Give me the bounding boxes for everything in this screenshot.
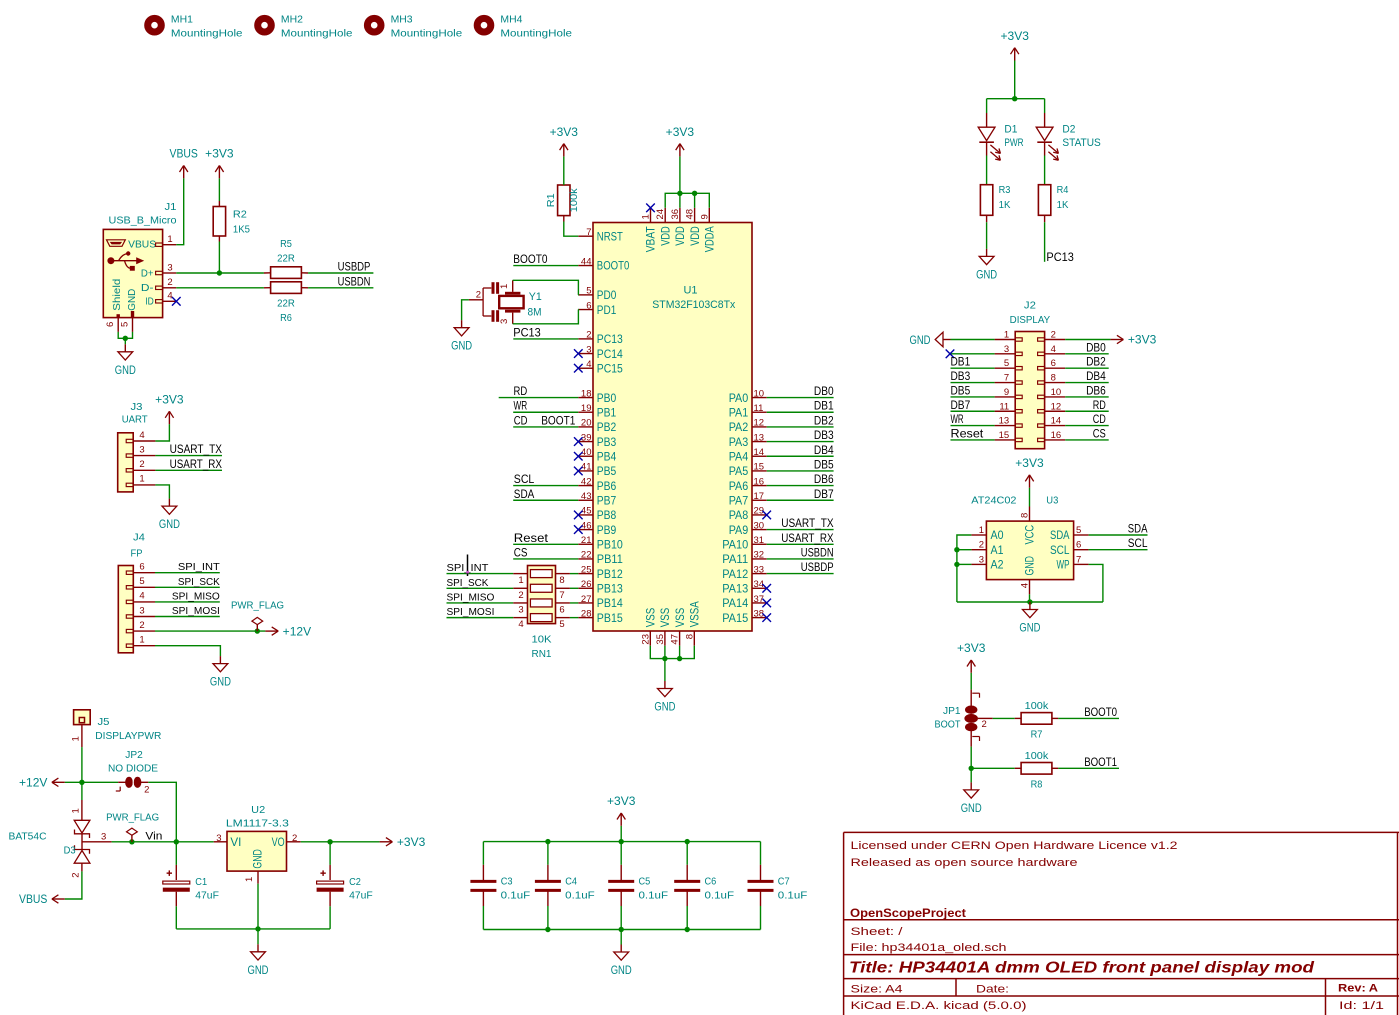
svg-text:SPI_MISO: SPI_MISO [172,590,220,602]
svg-text:3: 3 [979,554,984,565]
svg-text:PA13: PA13 [722,583,748,595]
wire [447,573,514,575]
junction [685,839,690,844]
svg-text:1: 1 [139,635,144,646]
svg-text:19: 19 [581,403,592,414]
svg-text:31: 31 [754,535,765,546]
wire [620,930,622,945]
ground [159,499,180,531]
svg-text:4: 4 [586,359,591,370]
wire [951,367,995,369]
wire [971,767,1015,769]
svg-text:PB2: PB2 [597,422,617,434]
svg-text:PB7: PB7 [597,495,617,507]
junction [545,927,550,932]
wire [951,339,995,341]
svg-text:Vin: Vin [145,830,162,842]
svg-text:12: 12 [1051,401,1062,412]
wire [993,717,1015,719]
wire [257,929,259,944]
junction [619,927,624,932]
ground [248,944,269,977]
wire [176,928,330,930]
mounting hole MH4 [477,15,572,40]
svg-text:VBUS: VBUS [128,239,156,251]
svg-text:DB0: DB0 [814,386,834,398]
svg-text:3: 3 [1004,344,1009,355]
wire [483,929,760,931]
svg-text:PB15: PB15 [597,613,623,625]
svg-text:R5: R5 [280,238,292,250]
wire [767,558,834,560]
svg-text:25: 25 [581,564,592,575]
svg-text:MH2: MH2 [281,15,303,26]
resistor R2 [213,207,250,237]
wire [118,332,132,338]
svg-text:+3V3: +3V3 [155,395,183,407]
power GND (left arrow) [910,332,951,347]
wire [308,272,373,274]
no-connect X [574,467,583,476]
svg-text:JP2: JP2 [125,749,143,761]
mounting hole MH3 [367,15,462,40]
no-connect X [574,511,583,520]
wire [513,338,578,340]
svg-text:4: 4 [139,591,144,602]
wire [1065,382,1109,384]
svg-text:VCC: VCC [1025,525,1037,545]
svg-text:Sheet: /: Sheet: / [851,926,904,938]
ground [976,249,997,282]
wire [1015,717,1021,719]
svg-text:GND: GND [451,341,472,353]
wire [513,426,578,428]
wire [951,439,995,441]
svg-text:PB5: PB5 [597,466,617,478]
junction [123,336,128,341]
svg-text:1: 1 [979,525,984,536]
wire [1065,353,1109,355]
wire [986,222,988,249]
ground [1019,602,1040,635]
wire [679,156,681,193]
wire [112,841,214,843]
svg-text:CD: CD [1093,414,1106,426]
svg-text:PWR_FLAG: PWR_FLAG [231,599,284,611]
svg-text:DB7: DB7 [814,489,834,501]
svg-text:DB2: DB2 [1086,357,1106,369]
svg-text:PC13: PC13 [1046,250,1074,264]
svg-text:27: 27 [581,594,592,605]
svg-text:U1: U1 [684,285,698,297]
svg-text:2: 2 [979,540,984,551]
wire [1065,410,1109,412]
svg-text:R3: R3 [999,184,1011,196]
no-connect X [762,511,771,520]
wire [155,485,169,499]
wire [760,865,762,882]
svg-text:CD: CD [514,413,528,427]
svg-text:1: 1 [167,234,172,245]
wire [513,280,579,295]
wire [767,543,834,545]
wire [155,646,220,656]
wire [1089,564,1103,602]
svg-text:STM32F103C8Tx: STM32F103C8Tx [652,299,735,311]
wire [570,602,578,604]
svg-text:PA6: PA6 [729,481,749,493]
power +3V3 [666,127,694,157]
svg-text:MountingHole: MountingHole [171,29,243,40]
wire [564,222,579,237]
wire [951,382,995,384]
wire [767,470,834,472]
svg-text:GND: GND [1019,623,1040,635]
power VBUS [170,149,199,179]
svg-text:100k: 100k [1025,700,1049,712]
svg-text:BOOT0: BOOT0 [513,252,547,266]
junction [1027,599,1032,604]
svg-text:2: 2 [139,459,144,470]
wire [155,586,220,588]
svg-text:R2: R2 [233,209,247,221]
junction [662,656,667,661]
svg-text:UART: UART [122,414,149,426]
svg-text:8: 8 [1020,513,1031,518]
svg-text:47: 47 [670,634,681,645]
svg-text:PB14: PB14 [597,598,624,610]
no-connect X [646,204,655,213]
svg-text:8M: 8M [528,307,542,319]
svg-text:47uF: 47uF [195,889,219,901]
wire [124,337,126,339]
svg-text:BOOT: BOOT [935,718,961,730]
wire [257,884,259,929]
svg-text:DB6: DB6 [814,474,834,486]
svg-text:6: 6 [1051,358,1056,369]
svg-text:WR: WR [951,414,964,426]
svg-text:10: 10 [1051,387,1062,398]
wire [447,602,514,604]
svg-text:USBDP: USBDP [801,562,834,574]
svg-text:PA0: PA0 [729,393,749,405]
wire [499,397,579,399]
svg-text:DB4: DB4 [1086,371,1106,383]
svg-text:32: 32 [754,550,765,561]
wire [176,272,264,274]
resistor R5 [271,238,302,278]
wire [951,396,995,398]
diode D3 BAT54C [9,800,112,878]
svg-text:+12V: +12V [283,626,312,638]
crystal Y1 8M [469,280,542,324]
power +12V [19,778,65,790]
svg-text:SPI_SCK: SPI_SCK [447,577,489,589]
svg-text:RN1: RN1 [532,648,552,660]
wire [124,338,126,344]
svg-text:DB5: DB5 [951,385,971,397]
svg-text:DISPLAYPWR: DISPLAYPWR [95,730,161,742]
svg-text:1: 1 [71,736,82,741]
svg-text:USBDP: USBDP [338,262,371,274]
wire [1058,767,1119,769]
svg-text:C2: C2 [349,876,361,888]
svg-text:SPI_INT: SPI_INT [178,561,221,573]
svg-text:PWR_FLAG: PWR_FLAG [106,811,159,823]
svg-text:7: 7 [586,227,591,238]
svg-text:18: 18 [581,388,592,399]
svg-text:FP: FP [131,548,143,560]
svg-text:3: 3 [586,344,591,355]
wire [1089,549,1148,551]
svg-text:2: 2 [71,872,82,877]
svg-text:PB8: PB8 [597,510,617,522]
wire [1065,396,1109,398]
svg-text:GND: GND [248,965,269,977]
svg-text:Id: 1/1: Id: 1/1 [1339,1000,1384,1012]
wire [563,216,565,222]
svg-text:PA4: PA4 [729,451,749,463]
capacitor C5 [608,875,668,901]
title block text [849,840,1384,1012]
svg-text:1: 1 [71,808,82,813]
wire [148,782,176,842]
svg-text:A2: A2 [991,560,1004,572]
svg-text:PB0: PB0 [597,393,617,405]
resistor R1 [545,185,580,216]
svg-text:2: 2 [586,330,591,341]
wire [447,617,514,619]
capacitor C3 [470,875,530,901]
wire [547,890,549,906]
no-connect X [574,437,583,446]
junction [255,628,260,633]
svg-text:DB7: DB7 [951,400,971,412]
svg-text:DB3: DB3 [814,430,834,442]
svg-text:USBDN: USBDN [338,276,371,288]
wire [482,865,484,882]
wire [620,906,622,930]
wire [679,193,681,208]
wire [570,587,578,589]
svg-text:0.1uF: 0.1uF [778,890,808,902]
svg-text:MH4: MH4 [500,15,522,26]
wire [155,601,220,603]
svg-text:Title: HP34401A dmm OLED front: Title: HP34401A dmm OLED front panel dis… [849,960,1315,977]
junction [129,839,134,844]
power VBUS [19,894,65,906]
no-connect X [762,599,771,608]
svg-text:WR: WR [514,399,528,413]
svg-text:30: 30 [754,520,765,531]
svg-text:42: 42 [581,476,592,487]
power +3V3 [1015,458,1043,488]
svg-text:PD0: PD0 [597,290,617,302]
svg-text:14: 14 [754,447,765,458]
svg-text:7: 7 [1004,373,1009,384]
svg-text:MH3: MH3 [391,15,413,26]
svg-text:PA10: PA10 [722,539,748,551]
svg-text:8: 8 [684,634,695,639]
svg-text:GND: GND [115,365,136,377]
svg-text:11: 11 [999,401,1009,412]
svg-text:28: 28 [581,608,592,619]
svg-text:D-: D- [141,282,154,294]
svg-text:VDD: VDD [660,226,672,246]
svg-text:C3: C3 [501,875,513,887]
wire [686,890,688,906]
svg-text:3: 3 [518,604,523,615]
svg-text:R6: R6 [280,312,292,324]
svg-text:U2: U2 [251,804,265,816]
svg-text:PC15: PC15 [597,363,623,375]
svg-text:PC13: PC13 [513,325,541,339]
svg-text:PC14: PC14 [597,349,624,361]
wire [679,646,681,659]
wire [264,272,271,274]
svg-text:PA7: PA7 [729,495,749,507]
wire [1044,156,1046,185]
wire [308,287,373,289]
wire [767,411,834,413]
svg-text:USART_RX: USART_RX [781,533,834,545]
svg-text:9: 9 [1004,387,1009,398]
wire [760,890,762,906]
power +3V3 [380,837,426,849]
wire [175,842,177,865]
svg-text:SDA: SDA [514,487,535,501]
svg-text:BOOT0: BOOT0 [597,261,630,273]
svg-text:21: 21 [581,535,592,546]
svg-text:USB_B_Micro: USB_B_Micro [109,214,177,226]
wire [767,529,834,531]
junction [217,270,222,275]
svg-text:12: 12 [754,418,765,429]
svg-text:1: 1 [1004,330,1009,341]
junction [954,562,959,567]
no-connect X [762,584,771,593]
wire [513,558,578,560]
wire [175,906,177,929]
svg-text:R4: R4 [1057,184,1069,196]
svg-text:1: 1 [244,877,255,882]
svg-text:2: 2 [144,785,149,796]
wire [482,890,484,906]
wire [686,906,688,930]
wire [329,906,331,929]
wire [1044,222,1046,262]
svg-text:1K: 1K [1057,199,1069,211]
wire [767,441,834,443]
svg-text:3: 3 [139,605,144,616]
wire [81,782,83,800]
wire [767,485,834,487]
svg-text:PA15: PA15 [722,613,748,625]
svg-text:PA1: PA1 [729,407,749,419]
svg-text:MountingHole: MountingHole [281,29,353,40]
svg-text:D+: D+ [141,267,154,279]
wire [218,242,220,274]
svg-text:PB1: PB1 [597,407,617,419]
wire [547,906,549,930]
svg-text:DISPLAY: DISPLAY [1010,314,1051,326]
svg-text:GND: GND [654,702,675,714]
junction [954,547,959,552]
svg-text:13: 13 [754,432,765,443]
wire [950,353,995,355]
wire [176,287,264,289]
no-connect X [946,350,955,359]
junction [327,839,332,844]
svg-text:5: 5 [119,322,130,327]
capacitor C1 [163,870,219,901]
svg-text:PA5: PA5 [729,466,749,478]
wire [175,865,177,880]
svg-text:GND: GND [961,803,982,815]
wire [155,572,220,574]
wire [957,601,1103,603]
regulator U2 LM1117-3.3 [214,804,301,884]
svg-text:DB4: DB4 [814,445,834,457]
svg-text:100k: 100k [568,188,580,213]
power flag PWR_FLAG [106,811,159,842]
junction [692,191,697,196]
svg-text:2: 2 [167,277,172,288]
svg-text:+3V3: +3V3 [666,127,694,139]
svg-text:PA9: PA9 [729,525,749,537]
svg-text:DB6: DB6 [1086,385,1106,397]
svg-text:+3V3: +3V3 [397,837,425,849]
wire [986,215,988,222]
svg-text:26: 26 [581,579,592,590]
svg-text:0.1uF: 0.1uF [705,890,735,902]
power +3V3 [550,127,578,157]
svg-text:1K5: 1K5 [233,223,250,235]
wire [329,842,331,865]
svg-text:JP1: JP1 [943,705,961,717]
svg-text:Y1: Y1 [529,291,542,303]
svg-text:VI: VI [230,837,241,849]
svg-text:CS: CS [514,545,528,559]
junction [1012,96,1017,101]
svg-text:+3V3: +3V3 [957,643,985,655]
svg-text:4: 4 [1051,344,1056,355]
svg-text:PB13: PB13 [597,583,623,595]
wire [155,424,169,441]
svg-text:10: 10 [754,388,765,399]
svg-text:6: 6 [105,322,116,327]
wire [513,543,578,545]
svg-text:17: 17 [754,491,765,502]
svg-text:NO DIODE: NO DIODE [108,763,158,775]
svg-text:GND: GND [253,849,265,869]
wire [176,178,183,244]
wire [767,499,834,501]
solder jumper JP2 NO DIODE [108,749,158,796]
wire [760,906,762,930]
wire [482,842,484,865]
wire [957,563,972,565]
svg-text:PA2: PA2 [729,422,749,434]
svg-text:PA14: PA14 [722,598,749,610]
svg-text:+3V3: +3V3 [1015,458,1043,470]
no-connect X [172,297,181,306]
svg-text:C1: C1 [195,876,207,888]
wire [957,535,972,602]
svg-text:1: 1 [499,284,510,289]
power +12V [265,626,311,638]
wire [951,410,995,412]
